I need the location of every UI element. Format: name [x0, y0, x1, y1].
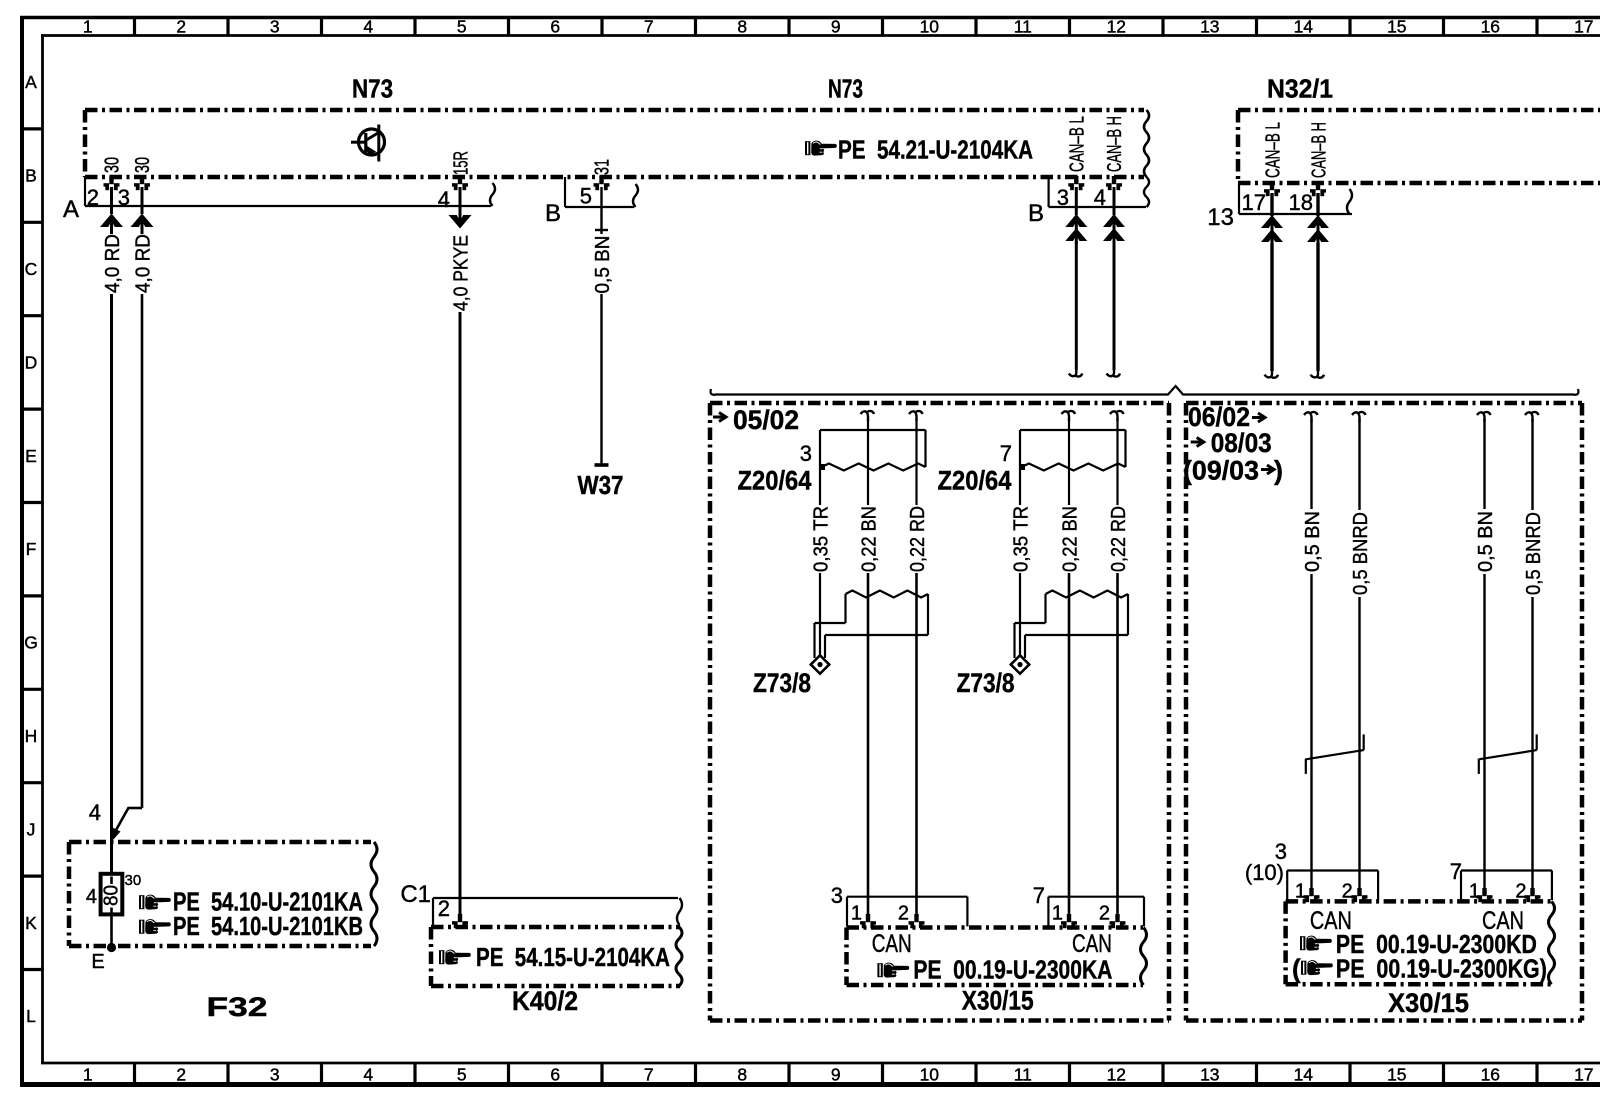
wire 0,22 RD left lower — [915, 573, 918, 917]
label X30/15 mid — [962, 986, 1034, 1016]
fuse rating label 80 — [101, 885, 123, 906]
svg-text:Z73/8: Z73/8 — [753, 668, 811, 698]
wire 4,0 RD from pin 3 lower — [141, 294, 144, 808]
signal label CAN-B H N32/1 — [1308, 122, 1330, 178]
pointing hand icon X30/15 right line3 — [1301, 960, 1333, 975]
wire BNRD 2 top curl — [1352, 412, 1366, 422]
svg-text:A: A — [63, 196, 79, 223]
wire 4,0 RD from pin 3 upper — [141, 187, 144, 214]
svg-text:): ) — [1274, 456, 1283, 486]
K40/2 wavy right edge — [676, 927, 682, 986]
direction arrow on pin2 wire — [100, 214, 123, 231]
svg-text:0,22 BN: 0,22 BN — [1060, 506, 1082, 572]
pin 2 label right-right — [1515, 881, 1526, 903]
wire BNRD 4 top curl — [1525, 412, 1539, 422]
wire BN 1 top curl — [1304, 412, 1318, 422]
svg-text:16: 16 — [1481, 1065, 1500, 1085]
twisted pair arrows CAN-B H N32/1 — [1307, 215, 1329, 245]
svg-text:80: 80 — [101, 885, 123, 906]
pin 1 of X30/15 mid-left — [860, 914, 876, 928]
label Z73/8 right — [957, 668, 1015, 698]
svg-text:F: F — [26, 539, 37, 559]
wire label 4,0 RD pin3 — [133, 234, 155, 293]
svg-text:4,0 PKYE: 4,0 PKYE — [451, 235, 473, 311]
label Z20/64 right — [938, 466, 1012, 496]
wire CAN-B H from N73 lower — [1113, 242, 1116, 370]
direction arrow down on pin4 wire — [449, 212, 472, 229]
pin 18 of N32/1 — [1289, 182, 1326, 215]
svg-text:3: 3 — [831, 883, 843, 908]
wire 0,35 TR left upper — [819, 430, 821, 505]
wire label 0,35 TR right — [1011, 506, 1033, 572]
label 06/02 with arrow — [1188, 402, 1265, 432]
label N73 left — [352, 74, 393, 104]
page border top — [20, 16, 1600, 20]
svg-text:13: 13 — [1200, 17, 1219, 37]
N73 box wavy right edge — [1144, 110, 1149, 177]
connector 7 label X30/15 right — [1450, 859, 1462, 884]
terminal label 30 at pin 3 — [132, 157, 154, 173]
pin 2 of X30/15 mid-left — [909, 914, 925, 928]
svg-text:G: G — [24, 633, 38, 653]
svg-text:Z20/64: Z20/64 — [938, 466, 1012, 496]
svg-text:X30/15: X30/15 — [1388, 988, 1469, 1018]
svg-text:15: 15 — [1387, 1065, 1406, 1085]
connector B bracket CAN — [1049, 177, 1146, 207]
wire BNRD 2 lower — [1358, 597, 1360, 890]
twisted pair arrows CAN-B H N73 — [1103, 214, 1125, 244]
svg-text:8: 8 — [737, 1065, 747, 1085]
svg-text:5: 5 — [457, 1065, 467, 1085]
svg-text:30: 30 — [125, 872, 142, 889]
note PE 00.19-U-2300KA — [913, 955, 1112, 985]
svg-text:9: 9 — [831, 1065, 841, 1085]
pin 4 of N73 — [438, 176, 468, 212]
variant box 05/02 outline — [710, 403, 1169, 1021]
connector 3 bracket X30/15 right — [1287, 871, 1378, 901]
twisted pair arrows CAN-B L N73 — [1065, 214, 1087, 244]
svg-text:6: 6 — [550, 1065, 560, 1085]
svg-text:5: 5 — [457, 17, 467, 37]
wire 0,35 TR left lower — [819, 573, 821, 656]
connector (10) label X30/15 right — [1245, 860, 1284, 885]
transistor symbol in N73 — [351, 125, 385, 162]
svg-text:2: 2 — [898, 903, 909, 925]
svg-text:H: H — [25, 726, 38, 746]
pointing hand icon N73 — [805, 141, 837, 156]
ground dot E — [107, 943, 116, 952]
wire 0,22 BN right top curl — [1062, 411, 1076, 421]
svg-text:16: 16 — [1481, 17, 1500, 37]
connector 13 squiggle — [1347, 189, 1352, 214]
svg-text:7: 7 — [644, 1065, 654, 1085]
text CAN mid-right — [1072, 930, 1112, 958]
wire 0,22 BN left upper — [867, 418, 869, 505]
connector 13 bracket — [1239, 183, 1352, 214]
svg-text:0,5 BN: 0,5 BN — [592, 236, 614, 294]
wire 0,22 BN right lower — [1068, 573, 1071, 917]
svg-text:N32/1: N32/1 — [1267, 74, 1333, 104]
label arrow 05/02 — [713, 413, 726, 422]
svg-text:7: 7 — [1450, 859, 1462, 884]
column numbers top — [83, 17, 1594, 37]
ground point W37 terminator — [595, 463, 609, 467]
ground label W37 — [578, 470, 624, 500]
wire BN 3 upper — [1483, 419, 1485, 509]
svg-text:J: J — [27, 819, 36, 839]
svg-text:7: 7 — [644, 17, 654, 37]
ground label E — [91, 951, 104, 973]
version brace line over boxes — [711, 386, 1579, 395]
wire 4,0 RD pin3 gap segment — [141, 227, 144, 234]
note PE 00.19-U-2300KD — [1336, 929, 1537, 959]
svg-text:0,5 BNRD: 0,5 BNRD — [1350, 512, 1372, 595]
svg-text:CAN–B L: CAN–B L — [1066, 116, 1088, 172]
svg-text:12: 12 — [1107, 17, 1126, 37]
svg-text:0,5 BNRD: 0,5 BNRD — [1523, 512, 1545, 595]
wire CAN-B L from N32/1 lower — [1270, 243, 1273, 371]
svg-text:PE 54.10-U-2101KB: PE 54.10-U-2101KB — [173, 911, 363, 941]
wire CAN-B L from N73 upper — [1075, 187, 1078, 215]
option jumper symbol right pair — [1479, 734, 1537, 774]
solder joint Z73/8 left symbol — [811, 591, 928, 674]
note PE 54.10-U-2101KA — [173, 887, 363, 917]
wire CAN-B H from N32/1 upper — [1316, 193, 1319, 216]
pointing hand icon X30/15 mid — [877, 963, 909, 978]
svg-text:B: B — [1028, 200, 1044, 227]
svg-text:D: D — [25, 352, 38, 372]
pin 1 of X30/15 mid-right — [1061, 914, 1077, 928]
fuse box F32 outline — [69, 842, 371, 946]
heater resistor Z20/64 right symbol — [1019, 430, 1126, 471]
wire 0,22 BN left lower — [867, 573, 870, 917]
option jumper symbol left pair — [1306, 734, 1364, 774]
svg-text:4,0 RD: 4,0 RD — [133, 234, 155, 293]
svg-text:4: 4 — [86, 886, 97, 908]
wire 0,35 TR right lower — [1019, 573, 1021, 656]
svg-text:05/02: 05/02 — [733, 405, 799, 435]
connector 7 bracket X30/15 right — [1461, 871, 1552, 901]
svg-text:5: 5 — [580, 184, 592, 209]
wire label 0,5 BN — [592, 236, 614, 294]
svg-text:4: 4 — [363, 1065, 373, 1085]
svg-text:PE 00.19-U-2300KA: PE 00.19-U-2300KA — [913, 955, 1112, 985]
wire label 0,22 BN left — [859, 506, 881, 572]
svg-text:0,35 TR: 0,35 TR — [1011, 506, 1033, 572]
svg-text:2: 2 — [176, 17, 186, 37]
connector B bracket pin5 — [565, 177, 634, 207]
svg-text:E: E — [91, 951, 104, 973]
wire 0,35 TR right upper — [1019, 430, 1021, 505]
wire label BN 3 — [1475, 511, 1497, 572]
wire 0,22 RD right top curl — [1110, 411, 1124, 421]
svg-text:4,0 RD: 4,0 RD — [102, 234, 124, 293]
connector 3 label X30/15 mid — [831, 883, 843, 908]
label N32/1 — [1267, 74, 1333, 104]
pin 3 CAN-B L of N73 — [1057, 176, 1085, 210]
direction arrow on pin3 wire — [131, 214, 154, 231]
row letters left — [24, 72, 38, 1026]
fuse terminal label 30 — [125, 872, 142, 889]
pin 1 label right-right — [1469, 881, 1480, 903]
pin 2 of N73 — [87, 176, 120, 210]
connector C1 squiggle — [677, 898, 682, 925]
note PE 00.19-U-2300KG paren — [1336, 954, 1547, 984]
wire end curl CAN-B L N32/1 — [1265, 368, 1279, 378]
svg-text:PE 54.21-U-2104KA: PE 54.21-U-2104KA — [838, 135, 1033, 165]
svg-text:L: L — [26, 1006, 36, 1026]
column separator ticks bottom — [135, 1063, 1538, 1084]
text CAN right-right — [1482, 907, 1524, 935]
svg-text:C: C — [25, 259, 38, 279]
wire label BNRD 4 — [1523, 512, 1545, 595]
wire 0,22 RD right lower — [1116, 573, 1119, 917]
column header strip line — [41, 34, 1600, 37]
twisted pair arrows CAN-B L N32/1 — [1261, 215, 1283, 245]
svg-text:17: 17 — [1574, 17, 1593, 37]
wire label 0,22 RD right — [1108, 506, 1130, 572]
bottom number strip line — [41, 1062, 1600, 1065]
svg-text:30: 30 — [101, 157, 123, 173]
Z20/64 left pin label 3 — [800, 441, 812, 466]
svg-text:11: 11 — [1014, 17, 1032, 37]
svg-text:0,22 RD: 0,22 RD — [907, 506, 929, 572]
svg-text:4: 4 — [363, 17, 373, 37]
svg-text:0,22 BN: 0,22 BN — [859, 506, 881, 572]
wire end curl CAN-B H N32/1 — [1311, 368, 1325, 378]
wire CAN-B L from N32/1 upper — [1270, 193, 1273, 216]
wire BN 3 top curl — [1477, 412, 1491, 422]
page border left — [20, 16, 24, 1086]
connector C1 label — [400, 881, 431, 908]
wire BNRD 4 lower — [1531, 597, 1533, 890]
pointing hand icon X30/15 right line2 — [1300, 936, 1332, 951]
connector B squiggle pin5 — [633, 184, 638, 207]
wire 4,0 RD from pin 2 lower — [110, 294, 113, 873]
svg-text:CAN: CAN — [872, 930, 912, 958]
wire end curl CAN-B L N73 — [1069, 367, 1083, 377]
svg-text:(10): (10) — [1245, 860, 1284, 885]
page border bottom — [20, 1082, 1600, 1087]
svg-text:08/03: 08/03 — [1211, 428, 1272, 458]
fuse pin label 4 — [86, 886, 97, 908]
svg-text:CAN–B H: CAN–B H — [1104, 116, 1126, 172]
label Z73/8 left — [753, 668, 811, 698]
pin 4 CAN-B H of N73 — [1094, 176, 1122, 210]
svg-text:9: 9 — [831, 17, 841, 37]
svg-text:Z73/8: Z73/8 — [957, 668, 1015, 698]
label 05/02 — [733, 405, 799, 435]
svg-text:7: 7 — [1033, 883, 1045, 908]
svg-text:X30/15: X30/15 — [962, 986, 1034, 1016]
signal label CAN-B L N32/1 — [1262, 122, 1284, 178]
fuse and relay module K40/2 box outline — [431, 927, 680, 986]
wire label 4,0 RD pin2 — [102, 234, 124, 293]
label X30/15 right — [1388, 988, 1469, 1018]
variant box 06/02 outline — [1186, 403, 1582, 1021]
pin 2 label right-left — [1342, 881, 1353, 903]
svg-text:13: 13 — [1200, 1065, 1219, 1085]
svg-text:18: 18 — [1289, 190, 1313, 215]
svg-text:Z20/64: Z20/64 — [738, 466, 812, 496]
svg-text:14: 14 — [1294, 1065, 1314, 1085]
wire BN 1 upper — [1310, 419, 1312, 509]
wire label 0,22 BN right — [1060, 506, 1082, 572]
row separator ticks left — [20, 129, 43, 970]
wire 4,0 PKYE upper — [459, 187, 462, 212]
svg-text:(09/03: (09/03 — [1183, 456, 1259, 486]
connector 7 label X30/15 mid — [1033, 883, 1045, 908]
label (09/03 arrow) — [1183, 456, 1283, 486]
wire label BNRD 2 — [1350, 512, 1372, 595]
svg-text:N73: N73 — [352, 74, 393, 104]
wire CAN-B L from N73 lower — [1075, 242, 1078, 370]
wire 4,0 RD from pin 2 upper — [110, 187, 113, 214]
F32 wavy right edge — [371, 842, 377, 946]
wire 4,0 PKYE lower — [459, 312, 462, 919]
column numbers bottom — [83, 1065, 1594, 1085]
connector 13 label — [1207, 204, 1234, 231]
connector A label — [63, 196, 79, 223]
wire 0,22 RD left top curl — [909, 411, 923, 421]
pin 1 label mid-right — [1052, 903, 1063, 925]
Z20/64 right pin label 7 — [1000, 441, 1012, 466]
wire 0,22 RD right upper — [1116, 418, 1118, 505]
label N73 right — [828, 74, 863, 104]
terminal label 31 at pin 5 — [591, 159, 613, 175]
label 08/03 with arrow — [1191, 428, 1272, 458]
pin 2 of X30/15 right-left — [1352, 888, 1368, 902]
svg-text:0,5 BN: 0,5 BN — [1302, 511, 1324, 572]
svg-text:4: 4 — [89, 800, 101, 825]
svg-text:0,22 RD: 0,22 RD — [1108, 506, 1130, 572]
svg-text:17: 17 — [1242, 190, 1266, 215]
signal label CAN-B H — [1104, 116, 1126, 172]
svg-text:2: 2 — [1099, 903, 1110, 925]
X30/15 right wavy right edge — [1549, 901, 1555, 984]
svg-text:3: 3 — [800, 441, 812, 466]
svg-text:2: 2 — [438, 896, 450, 921]
svg-text:CAN–B H: CAN–B H — [1308, 122, 1330, 178]
svg-text:K40/2: K40/2 — [512, 986, 578, 1016]
open paren line3 — [1292, 954, 1301, 984]
svg-text:31: 31 — [591, 159, 613, 175]
svg-text:15: 15 — [1387, 17, 1406, 37]
pin 1 of X30/15 right-left — [1304, 888, 1320, 902]
pin 1 of X30/15 right-right — [1477, 888, 1493, 902]
svg-text:10: 10 — [920, 17, 940, 37]
solder joint Z73/8 right symbol — [1011, 591, 1128, 674]
pin 2 of K40/2 — [438, 896, 468, 928]
svg-text:3: 3 — [270, 17, 280, 37]
column separator ticks top — [135, 16, 1538, 36]
terminal label 15R at pin 4 — [450, 151, 472, 175]
wire label 4,0 PKYE — [451, 235, 473, 311]
wire label 0,35 TR left — [811, 506, 833, 572]
wire label BN 1 — [1302, 511, 1324, 572]
wire 0,5 BN upper — [600, 187, 602, 234]
pin 1 label mid-left — [851, 903, 862, 925]
pin 2 of X30/15 right-right — [1525, 888, 1541, 902]
connector 3 label X30/15 right — [1275, 839, 1287, 864]
wire pin3 jog and diagonal to node 4 — [111, 807, 142, 842]
svg-text:12: 12 — [1107, 1065, 1126, 1085]
svg-text:N73: N73 — [828, 74, 863, 104]
wire CAN-B H from N73 upper — [1113, 187, 1116, 215]
svg-text:6: 6 — [550, 17, 560, 37]
svg-text:1: 1 — [83, 17, 93, 37]
pin 3 of N73 — [118, 176, 150, 210]
svg-text:2: 2 — [176, 1065, 186, 1085]
wire through fuse — [110, 877, 113, 947]
connector B label pin5 — [545, 200, 561, 227]
wire CAN-B H from N32/1 lower — [1316, 243, 1319, 371]
pointing hand icon K40/2 — [439, 950, 471, 965]
pin 1 label right-left — [1295, 881, 1306, 903]
pointing hand icon F32 line1 — [139, 895, 171, 910]
svg-text:17: 17 — [1574, 1065, 1593, 1085]
svg-text:C1: C1 — [400, 881, 431, 908]
control unit N73 box outline — [85, 110, 1144, 177]
connector A bracket — [85, 177, 491, 206]
svg-text:B: B — [545, 200, 561, 227]
label F32 — [207, 992, 268, 1022]
fuse F32 element — [101, 874, 123, 915]
pin 2 label mid-left — [898, 903, 909, 925]
svg-text:E: E — [25, 446, 37, 466]
note PE 54.10-U-2101KB — [173, 911, 363, 941]
svg-text:(: ( — [1292, 954, 1301, 984]
connector 7 bracket X30/15 mid — [1048, 897, 1144, 927]
svg-text:PE 54.15-U-2104KA: PE 54.15-U-2104KA — [476, 942, 670, 972]
svg-text:B: B — [25, 166, 37, 186]
svg-text:A: A — [25, 72, 37, 92]
note PE 54.21-U-2104KA — [838, 135, 1033, 165]
node 4 label — [89, 800, 101, 825]
svg-text:F32: F32 — [207, 992, 268, 1022]
svg-text:0,5 BN: 0,5 BN — [1475, 511, 1497, 572]
wire label 0,22 RD left — [907, 506, 929, 572]
control unit N32/1 box outline — [1238, 110, 1600, 183]
wire 4,0 RD pin2 gap segment — [110, 227, 113, 234]
pin 2 label mid-right — [1099, 903, 1110, 925]
wire 0,22 BN right upper — [1068, 418, 1070, 505]
svg-text:1: 1 — [83, 1065, 93, 1085]
svg-text:CAN–B L: CAN–B L — [1262, 122, 1284, 178]
svg-text:30: 30 — [132, 157, 154, 173]
connector C1 bracket — [433, 898, 678, 925]
connector B label CAN — [1028, 200, 1044, 227]
connector A squiggle — [490, 183, 495, 206]
svg-text:0,35 TR: 0,35 TR — [811, 506, 833, 572]
wire BN 3 lower — [1483, 574, 1485, 890]
wire 0,22 RD left upper — [915, 418, 917, 505]
wire end curl CAN-B H N73 — [1107, 367, 1121, 377]
wire BNRD 2 upper — [1358, 419, 1360, 510]
svg-text:8: 8 — [737, 17, 747, 37]
wire BNRD 4 upper — [1531, 419, 1533, 510]
label K40/2 — [512, 986, 578, 1016]
interior CAN distributor X30/15 right box outline — [1286, 901, 1551, 984]
svg-text:15R: 15R — [450, 151, 472, 175]
pin 2 of X30/15 mid-right — [1110, 914, 1126, 928]
connector 3 bracket X30/15 mid — [847, 897, 967, 927]
note PE 54.15-U-2104KA — [476, 942, 670, 972]
pin 5 of N73 — [580, 176, 610, 209]
wire 0,5 BN lower — [600, 294, 602, 465]
svg-text:7: 7 — [1000, 441, 1012, 466]
svg-text:4: 4 — [438, 187, 450, 212]
